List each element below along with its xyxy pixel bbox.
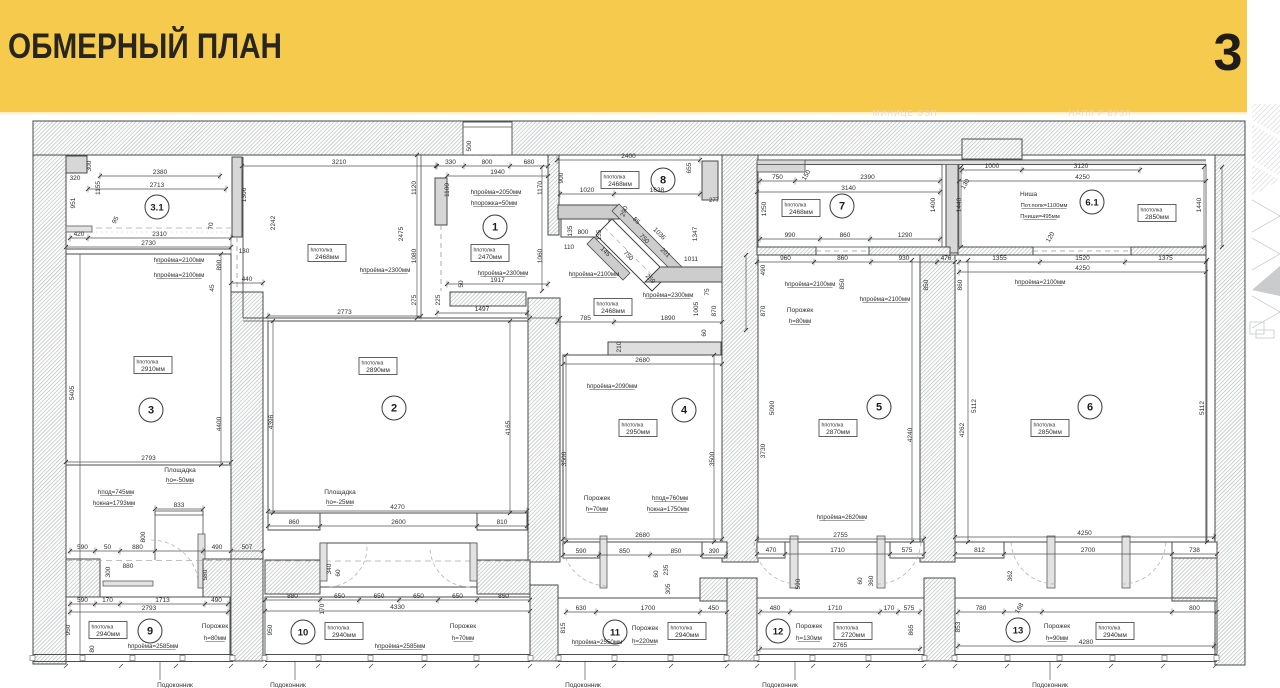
svg-text:4250: 4250 (1075, 174, 1090, 181)
svg-text:590: 590 (77, 544, 88, 551)
bottom window band x33-233 (33, 654, 233, 656)
svg-text:hпроёма=2550мм: hпроёма=2550мм (572, 639, 623, 646)
svg-text:300: 300 (105, 566, 112, 577)
svg-text:5405: 5405 (69, 385, 76, 400)
top wall strip rooms 7-6.1 (757, 161, 1206, 165)
svg-text:hпроёма=2585мм: hпроёма=2585мм (128, 643, 179, 650)
vertical dim line (911, 260, 913, 542)
room 2 interior (268, 321, 528, 513)
svg-text:1290: 1290 (898, 232, 913, 239)
ceiling height label 2940 (89, 622, 127, 639)
vertical dim line (1221, 167, 1223, 247)
niche rect above room 6.1 (962, 139, 1022, 159)
svg-text:1020: 1020 (580, 187, 595, 194)
sill unit5 right (1122, 536, 1130, 588)
svg-text:60: 60 (857, 577, 864, 585)
door arc unit4 left (754, 542, 798, 584)
svg-text:60: 60 (701, 329, 708, 337)
svg-text:5112: 5112 (1199, 401, 1206, 415)
svg-text:hпотолка: hпотолка (474, 248, 496, 254)
svg-text:860: 860 (837, 255, 848, 262)
svg-text:12: 12 (773, 627, 784, 638)
svg-text:hпроёма=2300мм: hпроёма=2300мм (643, 292, 694, 299)
ceiling height label 2720 (834, 623, 872, 640)
svg-text:880: 880 (123, 563, 134, 570)
dashed wall line unit1 (66, 560, 231, 562)
svg-text:812: 812 (974, 547, 985, 554)
vertical dim line (565, 355, 567, 542)
svg-text:hпотолка: hпотолка (92, 625, 114, 631)
door arc unit5 right (1122, 542, 1166, 584)
svg-text:2310: 2310 (152, 231, 167, 238)
svg-text:860: 860 (289, 519, 300, 526)
vertical dim line (272, 321, 274, 513)
ceiling height label 2910 (134, 357, 172, 374)
svg-text:2470мм: 2470мм (478, 254, 502, 261)
svg-text:990: 990 (785, 232, 796, 239)
svg-text:Пот.полк=1100мм: Пот.полк=1100мм (1021, 203, 1068, 209)
svg-text:800: 800 (1189, 605, 1200, 612)
room circle 3 (139, 398, 163, 422)
room 8 south wall gray band (558, 205, 619, 219)
wall block left of door unit1 (66, 559, 100, 597)
svg-text:hпотолка: hпотолка (1141, 208, 1163, 214)
ceiling height label 2470 (471, 245, 509, 262)
ceiling height label 2850 (1138, 205, 1176, 222)
wall block right of door unit1 (203, 559, 231, 597)
dim 2773 (268, 315, 421, 317)
svg-text:5112: 5112 (971, 399, 978, 413)
room circle 1 (483, 215, 507, 239)
dim 2713 (88, 188, 226, 190)
chevron watermark pattern top-right (1250, 104, 1280, 338)
svg-text:Порожек: Порожек (796, 623, 822, 630)
svg-text:1638: 1638 (650, 187, 665, 194)
dim 2380 (100, 175, 220, 177)
dim 4330 loggia10 (265, 610, 530, 612)
svg-text:hпотолка: hпотолка (622, 423, 644, 429)
svg-text:650: 650 (334, 593, 345, 600)
svg-text:650: 650 (452, 593, 463, 600)
pier right wall of room 8 (702, 161, 718, 200)
svg-text:hпроёма=2100мм: hпроёма=2100мм (860, 296, 911, 303)
svg-text:2: 2 (391, 403, 397, 415)
leader to windowsill (159, 662, 161, 680)
svg-text:5: 5 (876, 402, 882, 414)
svg-text:1011: 1011 (684, 256, 698, 263)
dim 1497 (437, 312, 527, 314)
svg-text:277: 277 (709, 198, 720, 204)
gray band lower right of room 8 (645, 267, 722, 282)
diagonal corridor dashed centerline (604, 227, 660, 283)
door arc unit4 right (877, 542, 921, 584)
svg-text:hпроёма=2050мм: hпроёма=2050мм (471, 189, 522, 196)
room 3.1 dashed boundary (66, 227, 231, 229)
dim 833 (155, 508, 203, 510)
unit1 dims y548 (70, 550, 263, 552)
dim 1940 (447, 175, 548, 177)
horizontal sill unit1 (103, 581, 153, 586)
svg-text:h=80мм: h=80мм (204, 635, 226, 642)
svg-text:hпотолка: hпотолка (311, 248, 333, 254)
svg-text:hокна=1793мм: hокна=1793мм (93, 500, 135, 507)
svg-text:7: 7 (839, 201, 845, 213)
svg-text:951: 951 (70, 197, 77, 208)
unit5 dims y612 (958, 611, 1217, 613)
svg-text:3500: 3500 (709, 451, 716, 466)
svg-text:135: 135 (567, 225, 574, 236)
svg-text:880: 880 (287, 593, 298, 600)
svg-text:1710: 1710 (828, 605, 843, 612)
bottom window band x265-530 (265, 654, 530, 656)
room 6 interior (955, 255, 1206, 542)
svg-text:2468мм: 2468мм (315, 254, 339, 261)
door recess unit2 (320, 543, 477, 587)
dim 1917 (447, 283, 548, 285)
loggia 10 top line (265, 596, 530, 598)
svg-text:1700: 1700 (641, 605, 656, 612)
wall block between loggia 11 and 12 (727, 578, 757, 661)
loggia 10 side (264, 597, 266, 655)
wall segment between upper and lower rooms x757-816 (757, 247, 816, 255)
svg-text:hпотолка: hпотолка (328, 626, 350, 632)
svg-text:2680: 2680 (635, 357, 650, 364)
svg-text:2380: 2380 (153, 169, 168, 176)
leader to windowsill (294, 662, 296, 680)
svg-text:4280: 4280 (1079, 639, 1094, 646)
unit3 dims y555 (563, 554, 726, 556)
svg-text:hпорожка=50мм: hпорожка=50мм (471, 200, 517, 207)
bottom window band x955-1217 (955, 654, 1217, 656)
room5 bottom wall pieces (757, 542, 785, 558)
svg-text:890: 890 (216, 259, 223, 270)
svg-text:655: 655 (686, 162, 693, 173)
dim 2680 bottom (563, 538, 722, 540)
svg-text:800: 800 (140, 531, 147, 542)
ceiling height label 2940 (668, 623, 706, 640)
windowsill room 3.1 left (66, 226, 92, 232)
svg-text:2890мм: 2890мм (366, 367, 390, 374)
loggia 9 side (65, 597, 67, 655)
svg-text:130: 130 (239, 248, 250, 255)
svg-text:650: 650 (413, 593, 424, 600)
vestibule door opening unit1 (155, 511, 203, 515)
svg-text:860: 860 (957, 279, 964, 290)
svg-text:hпотолка: hпотолка (785, 203, 807, 209)
niche opening dashed (464, 155, 510, 157)
svg-text:4165: 4165 (505, 420, 512, 435)
svg-text:10: 10 (298, 628, 309, 639)
svg-text:Площадка: Площадка (324, 489, 356, 496)
svg-text:1440: 1440 (956, 197, 963, 212)
svg-text:680: 680 (524, 159, 535, 166)
vertical dim line (541, 167, 543, 291)
svg-text:4: 4 (681, 405, 688, 417)
svg-text:2400: 2400 (621, 153, 636, 160)
svg-text:2700: 2700 (1081, 547, 1096, 554)
wall block between loggia 10 and 11 (530, 585, 558, 661)
svg-text:170: 170 (102, 597, 113, 604)
svg-text:1155: 1155 (95, 181, 102, 195)
svg-text:360: 360 (868, 575, 875, 586)
loggia 13 top line (955, 597, 1217, 599)
wall step block right of loggia 11 (700, 578, 727, 601)
svg-text:60: 60 (653, 570, 660, 578)
svg-text:300: 300 (86, 160, 93, 171)
svg-text:1347: 1347 (692, 226, 699, 241)
svg-text:476: 476 (941, 255, 952, 262)
svg-text:1890: 1890 (661, 315, 676, 322)
room6 bottom wall pieces (955, 542, 1004, 558)
dim 4250 top (959, 180, 1206, 182)
wall between room 7 and 6.1 (946, 160, 958, 253)
outer wall right band (1215, 155, 1245, 665)
svg-text:650: 650 (374, 593, 385, 600)
svg-text:330: 330 (445, 159, 456, 166)
ceiling height label 2850 (1031, 420, 1069, 437)
svg-text:70: 70 (208, 222, 215, 230)
svg-text:НАПЛ Р ВУЗЛ: НАПЛ Р ВУЗЛ (1069, 109, 1132, 118)
svg-text:900: 900 (558, 172, 565, 183)
unit wall W3 (722, 155, 758, 562)
outer wall left band (33, 155, 66, 664)
room 3 bottom wall (66, 464, 231, 466)
svg-text:800: 800 (482, 159, 493, 166)
svg-text:hпотолка: hпотолка (362, 361, 384, 367)
svg-text:850: 850 (619, 548, 630, 555)
room 6.1 interior (959, 165, 1206, 248)
room circle 6.1 (1080, 190, 1104, 214)
vertical dim line (967, 260, 969, 542)
svg-text:Пниши=495мм: Пниши=495мм (1020, 214, 1060, 220)
room 7 interior (757, 165, 942, 248)
svg-text:500: 500 (466, 140, 473, 151)
wall below room 1 (450, 292, 526, 306)
dims 1020 1638 (560, 193, 700, 195)
W1 dashed opening (236, 237, 238, 292)
svg-text:hпроёма=2300мм: hпроёма=2300мм (360, 267, 411, 274)
vertical dim line (220, 254, 222, 465)
room1 right wall upper (548, 155, 559, 235)
unit2 dims y602 (265, 599, 530, 601)
svg-text:507: 507 (242, 544, 253, 551)
vertical dim line (1206, 260, 1208, 542)
svg-text:1060: 1060 (537, 248, 544, 263)
svg-text:1497: 1497 (475, 306, 490, 313)
room 3 top wall line1 (66, 248, 231, 250)
svg-text:3: 3 (148, 405, 154, 417)
vertical dim line (960, 167, 962, 247)
room 2 top wall line1 (243, 317, 527, 319)
svg-text:2720мм: 2720мм (841, 632, 865, 639)
svg-text:2600: 2600 (391, 519, 406, 526)
svg-text:440: 440 (242, 276, 253, 283)
ceiling height label 2940 (325, 623, 363, 640)
doorway rect room 8 (561, 219, 609, 237)
svg-text:2242: 2242 (270, 215, 277, 230)
svg-text:2730: 2730 (141, 240, 156, 247)
svg-text:1440: 1440 (1196, 197, 1203, 212)
unit5 dims y554 (955, 553, 1217, 555)
ceiling height label 2940 (1096, 623, 1134, 640)
dim 2755 (757, 538, 924, 540)
ceiling height label 2870 (819, 420, 857, 437)
top wall rooms 7-6.1 inner line (757, 164, 1206, 166)
svg-text:3500: 3500 (561, 451, 568, 466)
dim 4270 (268, 510, 527, 512)
loggia 11 side (726, 598, 728, 655)
diagonal gray bar upper (612, 204, 684, 276)
dim 4250 mid (959, 271, 1206, 273)
svg-text:750: 750 (772, 174, 783, 181)
svg-text:590: 590 (576, 548, 587, 555)
svg-text:2940мм: 2940мм (96, 631, 120, 638)
svg-text:490: 490 (760, 264, 767, 275)
svg-text:2468мм: 2468мм (601, 308, 625, 315)
wall between 3.1 and hall (232, 157, 242, 237)
svg-text:305: 305 (665, 583, 672, 594)
svg-text:860: 860 (840, 232, 851, 239)
svg-text:930: 930 (899, 255, 910, 262)
svg-text:2390: 2390 (860, 174, 875, 181)
svg-text:60: 60 (335, 569, 342, 577)
svg-text:362: 362 (1007, 570, 1014, 581)
svg-text:450: 450 (708, 605, 719, 612)
svg-text:490: 490 (211, 597, 222, 604)
svg-text:ОБМЕРНЫЙ ПЛАН: ОБМЕРНЫЙ ПЛАН (8, 26, 282, 66)
hall unit2 left wall (242, 157, 244, 318)
wall segment between upper and lower rooms x1131-1206 (1131, 247, 1206, 255)
svg-text:1520: 1520 (1075, 255, 1090, 262)
room circle 7 (830, 194, 854, 218)
door arc unit1 dashed (151, 540, 199, 588)
vertical dim line (1203, 167, 1205, 247)
leader to windowsill (794, 662, 796, 680)
hall unit2 right wall (420, 155, 422, 318)
unit4 dims y554 (757, 553, 924, 555)
svg-text:590: 590 (795, 578, 802, 589)
svg-text:hпроёма=2100мм: hпроёма=2100мм (1015, 279, 1066, 286)
svg-text:h=70мм: h=70мм (452, 635, 474, 642)
svg-text:3.1: 3.1 (150, 203, 164, 214)
svg-text:Порожек: Порожек (584, 495, 610, 502)
dims row y262 left (757, 261, 955, 263)
small dim (530, 317, 560, 319)
svg-text:738: 738 (1189, 547, 1200, 554)
svg-text:1: 1 (492, 222, 498, 234)
door arc unit5 left (1011, 542, 1055, 584)
svg-text:1000: 1000 (985, 163, 1000, 170)
svg-text:2850мм: 2850мм (1038, 429, 1062, 436)
svg-text:2793: 2793 (142, 605, 157, 612)
pier top-left room 3.1 (66, 156, 87, 173)
dims 860 2600 810 (268, 525, 527, 527)
loggia 13 side (954, 598, 956, 655)
svg-text:1306: 1306 (241, 187, 248, 202)
svg-text:4250: 4250 (1077, 530, 1092, 537)
leader to windowsill (584, 662, 586, 680)
svg-text:hпотолка: hпотолка (137, 360, 159, 366)
ceiling height label 2950 (619, 420, 657, 437)
svg-text:6: 6 (1087, 402, 1093, 414)
top wall rooms 7-6.1 outer line (757, 159, 1206, 161)
svg-text:850: 850 (498, 593, 509, 600)
room circle 9 (138, 619, 162, 643)
ceiling height label 2468 (308, 245, 346, 262)
dim 2793 (66, 461, 231, 463)
svg-text:2468мм: 2468мм (608, 181, 632, 188)
room circle 5 (867, 395, 891, 419)
svg-text:853: 853 (955, 621, 962, 632)
room circle 2 (382, 396, 406, 420)
loggia 12 side (923, 598, 925, 655)
svg-text:865: 865 (908, 624, 915, 635)
svg-text:800: 800 (578, 229, 589, 236)
svg-text:МИНИЦЕ ЭЭП: МИНИЦЕ ЭЭП (873, 109, 938, 118)
svg-text:hпроёма=2300мм: hпроёма=2300мм (478, 270, 529, 277)
room circle 6 (1078, 395, 1102, 419)
dim 4250 room6 bottom (955, 536, 1214, 538)
svg-text:2850мм: 2850мм (1145, 214, 1169, 221)
svg-text:h=220мм: h=220мм (632, 638, 658, 645)
svg-text:Порожек: Порожек (450, 623, 476, 630)
yellow band soft shadow (0, 112, 1247, 116)
svg-text:Подоконник: Подоконник (1032, 682, 1068, 688)
loggia 10 side (529, 597, 531, 655)
sill unit3 (600, 536, 607, 588)
bottom window band x757-924 (757, 654, 924, 656)
svg-text:hпотолка: hпотолка (604, 175, 626, 181)
svg-text:480: 480 (770, 605, 781, 612)
bottom window band x558-727 (558, 654, 727, 656)
room circle 8 (651, 168, 675, 192)
svg-text:8: 8 (660, 175, 666, 187)
dim 2400 (557, 159, 700, 161)
svg-text:420: 420 (74, 231, 85, 238)
svg-text:2468мм: 2468мм (789, 209, 813, 216)
svg-text:235: 235 (663, 564, 670, 575)
unit wall W2 (528, 298, 560, 562)
room 5 interior (758, 255, 920, 542)
svg-text:780: 780 (976, 605, 987, 612)
svg-text:1713: 1713 (155, 597, 170, 604)
wall block between loggia 9 and 10 (230, 559, 263, 661)
svg-text:1917: 1917 (490, 277, 505, 284)
svg-text:2940мм: 2940мм (332, 632, 356, 639)
svg-text:80: 80 (89, 645, 96, 653)
svg-text:575: 575 (904, 605, 915, 612)
svg-text:960: 960 (780, 255, 791, 262)
svg-text:1250: 1250 (761, 201, 768, 216)
svg-text:h=80мм: h=80мм (789, 318, 811, 325)
svg-text:1100: 1100 (444, 183, 451, 197)
svg-text:4270: 4270 (390, 504, 405, 511)
svg-text:h=70мм: h=70мм (586, 506, 608, 513)
svg-text:hокна=1750мм: hокна=1750мм (647, 506, 689, 513)
svg-text:815: 815 (560, 622, 567, 633)
unit1 dims y604 (70, 603, 228, 605)
svg-text:630: 630 (576, 605, 587, 612)
svg-text:6.1: 6.1 (1085, 198, 1099, 209)
ceiling height label 2468 (594, 299, 632, 316)
unit wall W1 (231, 292, 263, 562)
svg-text:hпроёма=2585мм: hпроёма=2585мм (375, 643, 426, 650)
svg-text:390: 390 (709, 548, 720, 555)
svg-text:Подоконник: Подоконник (762, 682, 798, 688)
svg-text:170: 170 (884, 605, 895, 612)
svg-text:hпотолка: hпотолка (1034, 423, 1056, 429)
loggia 11 side (557, 598, 559, 655)
